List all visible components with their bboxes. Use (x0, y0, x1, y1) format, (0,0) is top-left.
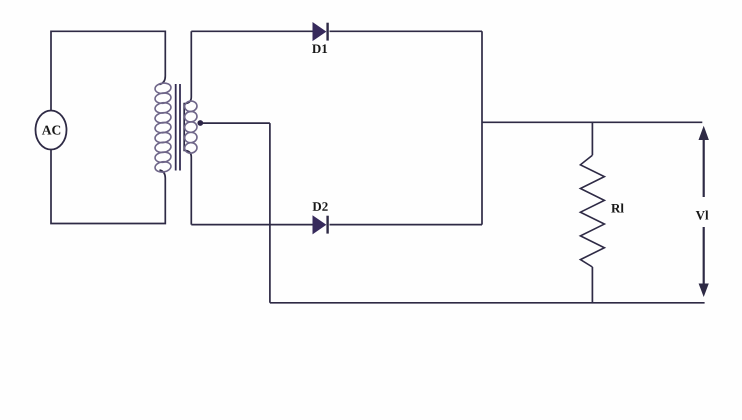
resistor Rl (580, 155, 623, 267)
Vl measurement arrow (double headed) (699, 126, 709, 297)
label Vl (696, 210, 709, 219)
wire: center tap vertical drop to bottom rail (269, 123, 271, 303)
AC source (36, 111, 67, 150)
diode D2 (313, 202, 329, 233)
wire: top rail from secondary to D1 anode (191, 30, 313, 32)
wire: resistor bottom lead (591, 267, 593, 303)
wire: bottom return rail (270, 302, 705, 304)
diode D1 (312, 23, 329, 53)
transformer T1 primary winding (154, 82, 171, 173)
wire: center tap horizontal run (200, 122, 270, 124)
wire: D2 cathode to right bus (330, 224, 483, 226)
node: center tap junction dot (197, 120, 203, 126)
transformer T1 secondary winding (184, 100, 198, 154)
wire: secondary top lead with hook to winding spine (184, 31, 191, 224)
wire: D2 rail from secondary bottom lead to D2 anode (191, 224, 313, 226)
wire: primary loop top (AC top to transformer primary lead) (51, 31, 165, 110)
transformer T1 core laminations (176, 84, 180, 171)
wire: resistor top lead (591, 122, 593, 155)
wire: right vertical bus joining D1 and D2 cathodes (481, 31, 483, 224)
wire: D1 cathode to right bus (330, 30, 483, 32)
wire: primary loop bottom (AC bottom to transformer primary lead) (51, 150, 165, 224)
wire: output top rail to load and Vl (482, 121, 702, 123)
